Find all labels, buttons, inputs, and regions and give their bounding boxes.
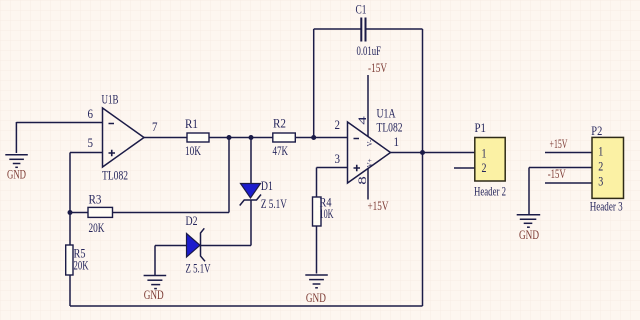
junction node D1 xyxy=(249,135,254,140)
svg-text:4: 4 xyxy=(357,116,369,125)
svg-text:-15V: -15V xyxy=(368,60,387,75)
junction node R1-R3 xyxy=(227,135,232,140)
svg-text:Z 5.1V: Z 5.1V xyxy=(186,261,211,276)
svg-text:1: 1 xyxy=(482,145,487,160)
svg-text:-15V: -15V xyxy=(548,166,566,181)
op-amp U1B xyxy=(88,92,158,183)
ground symbol R4 xyxy=(305,275,328,288)
svg-text:10K: 10K xyxy=(185,143,201,158)
svg-text:+15V: +15V xyxy=(368,198,389,213)
connector P1 xyxy=(474,120,506,199)
svg-text:20K: 20K xyxy=(89,220,105,235)
wire R3 right xyxy=(113,212,230,214)
svg-text:Z 5.1V: Z 5.1V xyxy=(261,196,287,211)
wire C1 top right xyxy=(366,28,423,30)
svg-text:6: 6 xyxy=(88,106,94,121)
capacitor C1 xyxy=(356,2,382,58)
svg-text:8: 8 xyxy=(357,176,369,185)
svg-text:R2: R2 xyxy=(273,116,286,131)
op-amp U1A xyxy=(335,106,403,185)
wire U1B output to R1 xyxy=(144,137,187,139)
svg-text:U1B: U1B xyxy=(102,92,119,107)
svg-text:R3: R3 xyxy=(89,192,102,207)
svg-text:GND: GND xyxy=(144,287,164,302)
wire R1 to R2 xyxy=(209,137,273,139)
ground symbol left xyxy=(5,155,28,168)
wire U1A pin3 xyxy=(317,167,348,169)
resistor R3 xyxy=(88,192,113,235)
zener diode D2 xyxy=(186,213,211,276)
svg-text:R1: R1 xyxy=(185,116,198,131)
wire feedback right vertical xyxy=(422,29,424,306)
svg-text:3: 3 xyxy=(335,151,341,166)
svg-text:D2: D2 xyxy=(186,213,198,228)
svg-text:2: 2 xyxy=(335,117,341,132)
resistor R5 xyxy=(66,245,89,275)
resistor R1 xyxy=(185,116,209,158)
svg-text:5: 5 xyxy=(88,135,94,150)
wire feedback bottom xyxy=(70,305,423,307)
wire R3 left xyxy=(70,212,88,214)
wire node to R3 vertical xyxy=(228,138,230,213)
svg-text:20K: 20K xyxy=(74,257,89,272)
wire D1 cathode vertical xyxy=(250,200,252,246)
ground symbol middle xyxy=(144,276,167,289)
svg-text:Header 3: Header 3 xyxy=(590,199,623,214)
svg-text:V-: V- xyxy=(366,139,374,146)
svg-text:7: 7 xyxy=(152,119,158,134)
wire R5 bottom xyxy=(69,275,71,306)
svg-text:47K: 47K xyxy=(273,143,289,158)
wire ground stub P2 xyxy=(528,168,530,215)
svg-text:GND: GND xyxy=(306,290,326,305)
junction node C1-pin2 xyxy=(311,135,316,140)
connector P2 xyxy=(590,123,624,214)
wire U1A pin8 power xyxy=(367,169,369,200)
wire ground stub middle xyxy=(154,246,156,276)
wire pin5 vertical to node R3 xyxy=(69,153,71,213)
wire U1A output to P1 xyxy=(391,152,475,154)
wire pin6 U1B to ground xyxy=(16,122,102,124)
wire D1 anode vertical xyxy=(250,138,252,184)
svg-text:C1: C1 xyxy=(356,2,367,17)
wire +15V to P2 pin1 xyxy=(545,152,592,154)
wire R4 bottom to ground xyxy=(316,226,318,274)
wire D1 to D2 xyxy=(200,245,251,247)
svg-text:P2: P2 xyxy=(591,123,602,138)
svg-text:GND: GND xyxy=(7,167,26,182)
wire -15V to P2 pin3 xyxy=(545,182,592,184)
wire C1 top left xyxy=(314,28,361,30)
svg-text:+15V: +15V xyxy=(550,136,568,151)
svg-text:U1A: U1A xyxy=(377,106,396,121)
ground symbol P2 xyxy=(517,215,541,227)
svg-text:10K: 10K xyxy=(320,206,334,221)
svg-text:Header 2: Header 2 xyxy=(474,184,506,199)
wire C1 left vertical to pin2 node xyxy=(313,29,315,138)
wire D2 anode xyxy=(155,245,187,247)
junction node output feedback xyxy=(420,150,425,155)
wire R5 top xyxy=(69,213,71,246)
svg-text:V+: V+ xyxy=(366,158,374,167)
resistor R2 xyxy=(273,116,296,159)
svg-text:D1: D1 xyxy=(261,178,273,193)
wire pin3 vertical to R4 xyxy=(316,168,318,198)
svg-text:3: 3 xyxy=(598,174,603,189)
resistor R4 xyxy=(313,195,334,227)
svg-text:TL082: TL082 xyxy=(102,168,128,183)
zener diode D1 xyxy=(240,178,288,211)
wire P2 pin2 to ground xyxy=(529,167,592,169)
wire R2 to U1A pin2 xyxy=(295,137,347,139)
wire pin5 U1B xyxy=(70,152,103,154)
svg-text:1: 1 xyxy=(598,144,603,159)
wire ground stub left xyxy=(15,122,17,153)
svg-text:0.01uF: 0.01uF xyxy=(357,43,382,58)
junction node R3-R5-pin5 xyxy=(68,210,73,215)
svg-text:GND: GND xyxy=(519,227,539,242)
wire U1A pin4 power xyxy=(367,75,369,137)
svg-text:P1: P1 xyxy=(475,120,487,135)
svg-text:1: 1 xyxy=(394,134,400,149)
wire P1 pin2 stub xyxy=(454,167,475,169)
svg-text:TL082: TL082 xyxy=(377,120,403,135)
svg-text:2: 2 xyxy=(482,160,487,175)
svg-text:2: 2 xyxy=(598,159,603,174)
